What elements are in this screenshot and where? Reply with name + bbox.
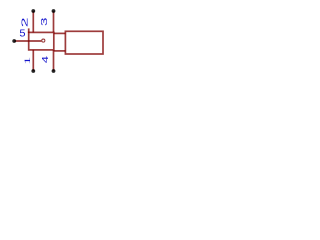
- svg-text:1: 1: [23, 57, 32, 65]
- svg-text:5: 5: [19, 29, 25, 39]
- svg-text:4: 4: [42, 56, 51, 63]
- svg-text:2: 2: [20, 17, 29, 27]
- svg-text:3: 3: [40, 17, 49, 26]
